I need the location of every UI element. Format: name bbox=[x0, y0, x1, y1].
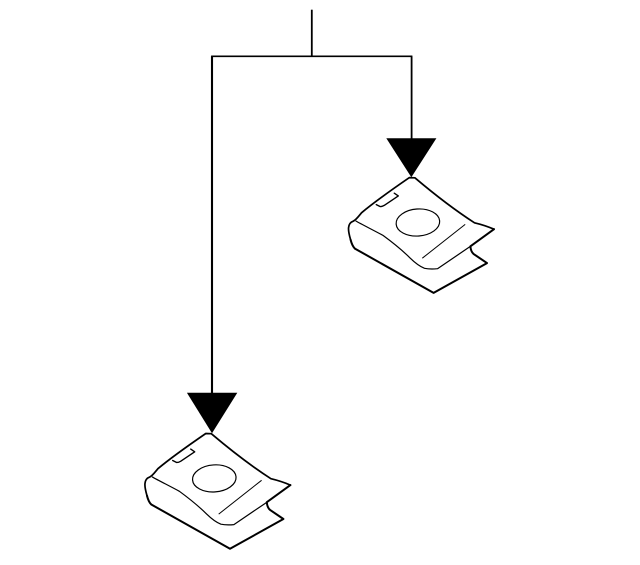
wire: left drop bbox=[211, 56, 213, 394]
arrow 2 (left) bbox=[187, 393, 237, 434]
wire: horizontal branch bbox=[211, 55, 412, 57]
arrow 1 (right) bbox=[386, 138, 436, 177]
clip part 2 (lower left) bbox=[145, 434, 290, 549]
wire: right drop bbox=[411, 56, 413, 139]
wire: top vertical leader bbox=[311, 10, 313, 57]
clip part 1 (upper right) bbox=[349, 178, 494, 293]
